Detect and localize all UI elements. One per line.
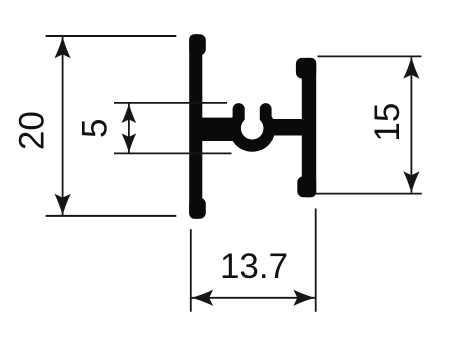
dimension 20: top extension line xyxy=(46,35,177,37)
dimension 5: dimension line xyxy=(128,104,130,153)
dimension 5: bottom extension line xyxy=(114,152,232,154)
screw boss right prong xyxy=(260,103,272,133)
svg-text:5: 5 xyxy=(75,119,114,138)
svg-text:13.7: 13.7 xyxy=(220,247,288,286)
screw boss slot opening (white cut) xyxy=(245,96,260,128)
profile left flange (vertical bar) xyxy=(189,34,206,219)
dimension 20: bottom extension line xyxy=(46,215,177,217)
svg-text:20: 20 xyxy=(12,111,51,150)
screw boss screw hole (white cut) xyxy=(241,117,264,140)
dimension 5: arrow up xyxy=(122,104,137,123)
dimension 13.7: left extension line xyxy=(190,229,192,311)
profile left flange top bead xyxy=(189,34,206,55)
dimension 13.7: arrow left xyxy=(192,290,214,306)
profile right flange (vertical bar) xyxy=(296,58,316,197)
central web left segment xyxy=(201,118,238,141)
dimension 5: arrow down xyxy=(122,133,137,152)
dimension 5: top extension line xyxy=(114,102,227,104)
dimension 13.7: right extension line xyxy=(315,209,317,312)
dimension 15: arrow up xyxy=(403,57,419,78)
dimension 13.7: arrow right xyxy=(293,290,315,306)
dimension 15: dimension line xyxy=(410,57,412,193)
screw boss outer circle xyxy=(229,106,275,152)
dimension 15: top extension line xyxy=(318,55,422,57)
dimension 20: dimension line xyxy=(62,37,64,215)
central web right segment xyxy=(266,119,303,136)
svg-text:15: 15 xyxy=(368,103,407,142)
screw boss left prong xyxy=(233,103,245,133)
profile left flange bottom bead xyxy=(189,198,206,219)
profile right flange bottom bead xyxy=(297,176,316,197)
dimension 15: bottom extension line xyxy=(316,193,422,195)
dimension 15: arrow down xyxy=(403,171,419,193)
dimension 13.7: dimension line xyxy=(192,297,315,299)
profile right flange top bead xyxy=(296,58,316,79)
dimension 20: arrow up xyxy=(54,37,70,59)
dimension 20: arrow down xyxy=(54,194,70,216)
